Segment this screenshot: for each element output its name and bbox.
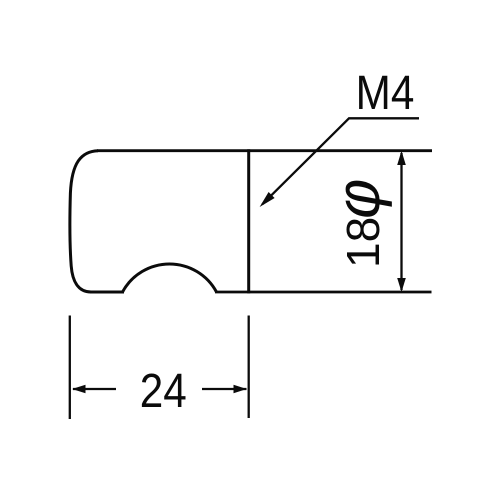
svg-text:M4: M4	[356, 65, 415, 119]
knob front face line	[247, 149, 250, 293]
24 dimension line left segment	[73, 388, 116, 390]
24 dimension line right segment	[202, 388, 247, 390]
18φ top arrowhead	[397, 151, 406, 165]
knob left profile (rounded back)	[70, 151, 98, 292]
svg-text:18: 18	[337, 217, 389, 268]
24 dimension left extension line	[69, 316, 71, 420]
M4 leader arrowhead	[260, 192, 275, 207]
24 dimension right extension line	[248, 316, 250, 419]
svg-text:24: 24	[140, 363, 187, 417]
18φ bottom arrowhead	[397, 278, 406, 292]
M4 leader line	[262, 118, 419, 204]
24 left arrowhead	[72, 385, 86, 394]
finger notch arc	[123, 264, 217, 292]
bottom edge of knob (left of finger notch)	[90, 291, 124, 294]
svg-text:φ: φ	[323, 172, 392, 224]
bottom edge of knob (right of notch) + extension line for 18φ dimension	[215, 291, 432, 294]
top edge of knob + extension line for 18φ dimension	[97, 149, 432, 152]
24 right arrowhead	[234, 385, 247, 394]
18φ dimension line	[400, 153, 402, 290]
